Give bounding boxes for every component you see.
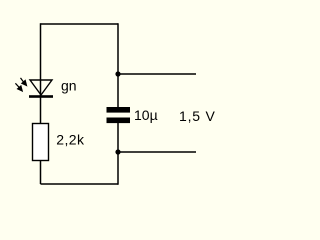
svg-text:1,5 V: 1,5 V bbox=[179, 108, 216, 124]
svg-text:10µ: 10µ bbox=[134, 107, 158, 123]
svg-text:2,2k: 2,2k bbox=[56, 132, 85, 148]
svg-text:gn: gn bbox=[61, 78, 77, 94]
